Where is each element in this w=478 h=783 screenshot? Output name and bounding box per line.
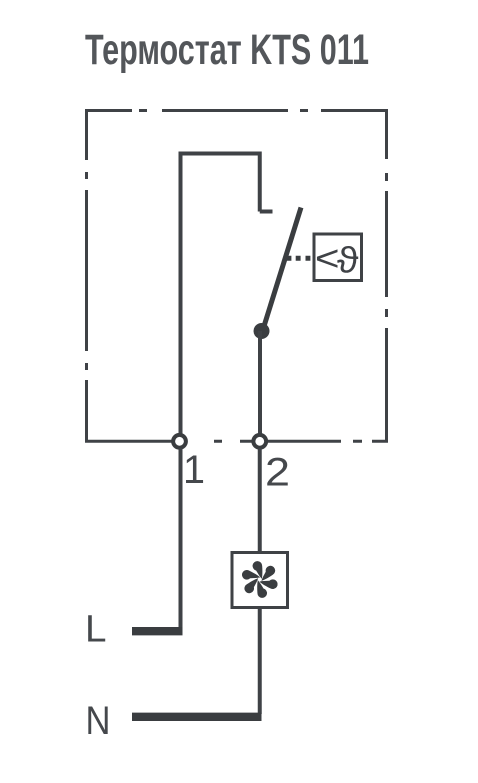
svg-text:<: < [315, 238, 340, 279]
N terminal bar [132, 713, 262, 721]
dotted actuator link [287, 256, 311, 261]
enclosure dash-dot border: left side [85, 111, 88, 442]
wire: pivot down to terminal 2 [258, 331, 262, 435]
wire: terminal 1 down to L [179, 448, 183, 631]
enclosure dash-dot border: right side [385, 111, 388, 442]
svg-text:N: N [86, 699, 111, 743]
switch pivot junction dot [254, 323, 270, 339]
svg-text:ϑ: ϑ [337, 239, 359, 280]
thermostat label <ϑ [315, 238, 359, 281]
fan impeller [239, 560, 280, 598]
switch blade [263, 208, 302, 332]
terminal 1 [173, 435, 186, 448]
wire: bridge from terminal 1 up, across, down to switch contact [181, 154, 260, 436]
enclosure dash-dot border: top side [87, 111, 387, 113]
enclosure dash-dot border: bottom side [85, 439, 387, 441]
svg-text:1: 1 [183, 448, 205, 492]
wire: terminal 2 down to fan [258, 448, 262, 551]
L terminal bar [132, 627, 183, 635]
fan box M1 [232, 553, 288, 608]
wire: fixed contact stub [260, 210, 273, 214]
svg-text:Термостат KTS 011: Термостат KTS 011 [85, 27, 369, 74]
wire: fan down to N [258, 608, 262, 714]
thermostat box U1 [314, 234, 362, 281]
terminal 2 [253, 435, 266, 448]
svg-text:2: 2 [265, 451, 290, 495]
svg-text:L: L [85, 609, 107, 651]
